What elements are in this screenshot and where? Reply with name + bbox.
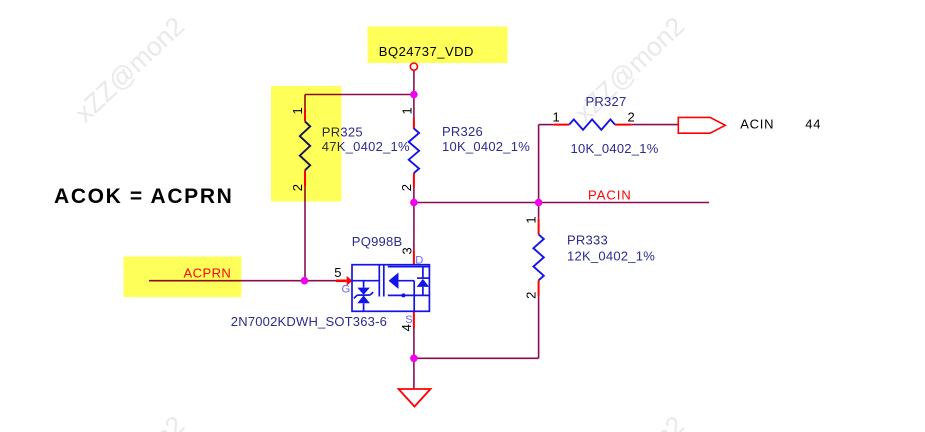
svg-text:PR333: PR333: [567, 233, 608, 248]
svg-text:2: 2: [524, 292, 539, 299]
svg-text:ACIN: ACIN: [740, 116, 774, 131]
svg-text:1: 1: [553, 110, 560, 125]
svg-text:1: 1: [524, 216, 539, 223]
svg-text:1: 1: [399, 107, 414, 114]
svg-text:PR327: PR327: [586, 94, 627, 109]
svg-text:PACIN: PACIN: [588, 187, 632, 202]
svg-text:44: 44: [805, 116, 821, 131]
svg-text:PQ998B: PQ998B: [352, 234, 403, 249]
svg-text:12K_0402_1%: 12K_0402_1%: [567, 249, 655, 264]
svg-text:D: D: [415, 254, 423, 266]
svg-text:10K_0402_1%: 10K_0402_1%: [442, 139, 530, 154]
svg-text:S: S: [405, 314, 412, 326]
svg-text:ACOK = ACPRN: ACOK = ACPRN: [54, 185, 233, 208]
svg-text:2: 2: [399, 184, 414, 191]
svg-text:2: 2: [628, 110, 635, 125]
svg-text:PR326: PR326: [442, 124, 483, 139]
svg-text:5: 5: [334, 265, 341, 280]
svg-text:G: G: [342, 283, 351, 295]
svg-text:2N7002KDWH_SOT363-6: 2N7002KDWH_SOT363-6: [231, 314, 387, 329]
svg-text:10K_0402_1%: 10K_0402_1%: [571, 141, 659, 156]
